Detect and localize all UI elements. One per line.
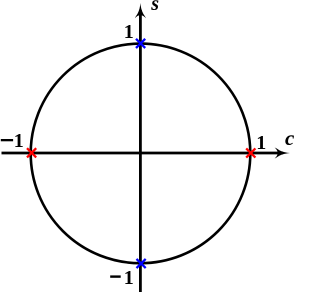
svg-text:1: 1	[124, 267, 134, 289]
svg-text:c: c	[285, 126, 294, 150]
svg-text:1: 1	[14, 130, 24, 152]
svg-text:1: 1	[256, 132, 266, 154]
svg-text:s: s	[150, 0, 159, 15]
svg-text:1: 1	[124, 21, 134, 43]
